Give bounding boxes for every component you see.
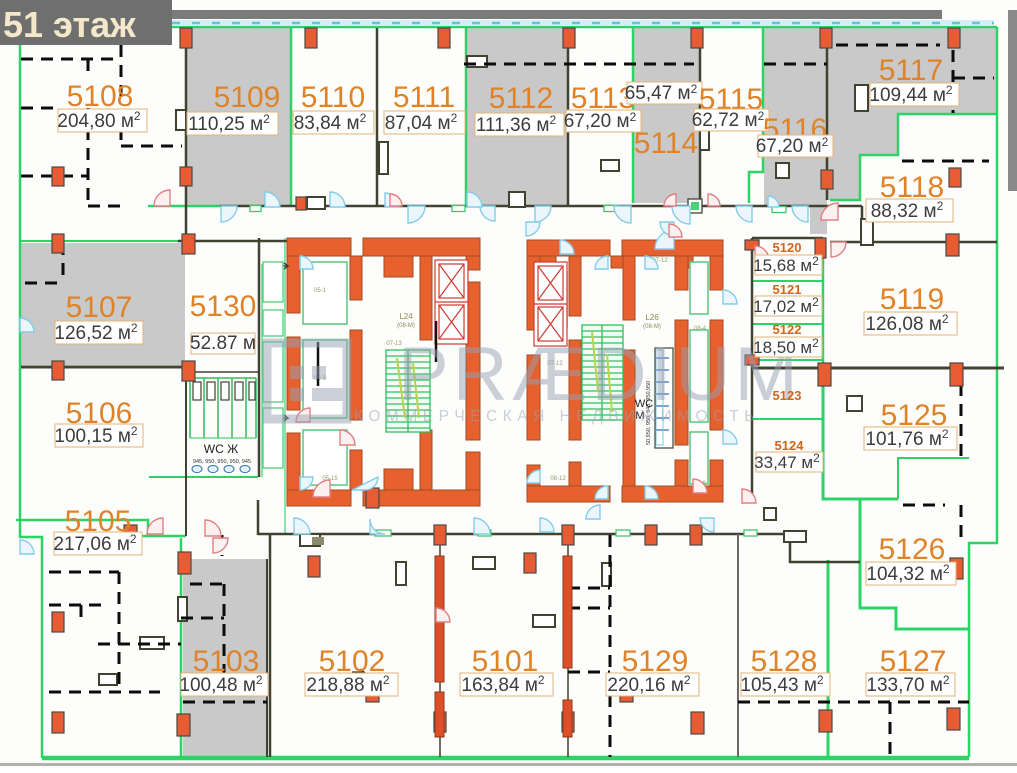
right core internal wall C WC: [675, 256, 688, 290]
wall 5130 right: [258, 238, 261, 477]
vent rect 5102 horizontal: [473, 557, 495, 569]
wall 5123 bottom green: [752, 418, 823, 420]
rooms 5120-5122 dividers green: [752, 280, 823, 282]
svg-text:(08-М): (08-М): [397, 323, 415, 329]
wall 5119 left green: [822, 238, 825, 368]
wall 5118 left vertical: [861, 206, 864, 242]
corridor wall green part left: [148, 205, 220, 208]
rooms 5116-5117 gray fill: [764, 28, 997, 206]
vent rect 5101: [533, 615, 555, 627]
svg-text:126,52 м2: 126,52 м2: [54, 321, 137, 344]
outer boundary right edge: [969, 27, 997, 757]
left core ducts green outline: [303, 262, 708, 485]
room 5112 gray fill: [466, 28, 568, 206]
vent rect 5102 vertical: [396, 562, 406, 585]
vent rect 5112 top: [467, 56, 487, 67]
dashed line 5118 top: [902, 160, 989, 163]
svg-text:5107: 5107: [66, 291, 133, 324]
room 5107 top green edge: [20, 240, 188, 242]
bottom gray scan line: [0, 763, 1017, 766]
room 5106/5105 boundary green: [16, 520, 148, 537]
dashed partition 5108 vertical a: [120, 45, 123, 100]
svg-text:5114: 5114: [634, 127, 699, 160]
room 5107 gray fill: [21, 243, 185, 365]
elevator shaft left block: [435, 260, 468, 344]
dashed partition 5108 left low: [21, 175, 88, 178]
room 5114 label: [627, 82, 702, 104]
header 51 floor: [0, 0, 172, 45]
dashed corner 5126: [903, 505, 961, 542]
dashed partitions 5105: [49, 571, 119, 574]
vent rect 5103 left: [178, 597, 187, 621]
blue door arcs top corridor: [221, 192, 808, 249]
teal tick line above top edge: [172, 20, 994, 26]
svg-text:5121: 5121: [773, 282, 802, 297]
markers bottom corridor wall: [124, 525, 137, 545]
right core top column stems: [534, 256, 556, 268]
dashed line 5128/5127 bottom: [738, 701, 969, 704]
svg-text:5122: 5122: [773, 322, 802, 337]
left core internal wall B: [420, 256, 432, 340]
right core right wall: [710, 256, 723, 290]
dashed partition 5108 low horizontal: [121, 145, 182, 148]
boundary 5117/5118 step: [830, 114, 997, 200]
corridor 5126 step: [790, 534, 860, 562]
room 5124 boundary green thick: [823, 371, 898, 499]
svg-text:88,32 м2: 88,32 м2: [871, 199, 944, 222]
svg-text:87,04 м2: 87,04 м2: [385, 111, 458, 134]
vent rect corridor near 5130: [307, 197, 325, 209]
svg-text:204,80 м2: 204,80 м2: [57, 109, 140, 132]
left core bottom column stem: [384, 469, 413, 490]
left core bottom wall: [287, 490, 351, 506]
wall 5130/WC bottom: [186, 371, 259, 373]
outer boundary top edge: [20, 27, 997, 45]
wall 5107/5106 dark part: [21, 366, 190, 369]
svg-text:65,47 м2: 65,47 м2: [625, 82, 698, 104]
wall 5130 top: [178, 240, 288, 243]
wall 5129/5128: [737, 534, 739, 757]
outer boundary bottom edge: [42, 756, 969, 761]
outer boundary left edge: [20, 45, 42, 758]
dashed partitions 5103: [223, 584, 226, 702]
corridor bottom wall left connector: [257, 500, 260, 535]
svg-text:126,08 м2: 126,08 м2: [865, 312, 948, 335]
red door arcs: [147, 190, 846, 622]
wall 5106 right / WC left: [185, 372, 187, 536]
dashed vertical 5117: [952, 30, 955, 113]
wall 5110/5111: [376, 28, 379, 206]
svg-text:5112: 5112: [489, 82, 554, 115]
vent rect 5128: [784, 531, 806, 542]
room 5125 right notch green: [898, 458, 969, 499]
corridor green verticals near core left: [261, 264, 263, 477]
wall 5113/5114: [632, 28, 635, 203]
svg-text:5126: 5126: [879, 533, 946, 566]
svg-text:5109: 5109: [214, 81, 281, 114]
left core block top wall: [287, 238, 351, 256]
room 5103 gray fill: [183, 559, 267, 757]
svg-text:100,48 м2: 100,48 м2: [179, 673, 262, 696]
right core bottom wall: [527, 486, 610, 502]
markers 5103 walls: [178, 552, 191, 574]
svg-text:105,43 м2: 105,43 м2: [740, 673, 823, 696]
entry arrows core left wall: [276, 263, 288, 269]
service shafts right of 5130: [263, 262, 283, 468]
WC Ж sinks row: [192, 466, 250, 473]
black utility line left lobby: [435, 321, 438, 362]
svg-text:52.87 м: 52.87 м: [190, 333, 256, 354]
wall 5109/5110: [290, 28, 293, 206]
wall corridor left vertical: [185, 206, 188, 242]
svg-text:5111: 5111: [393, 81, 455, 114]
vent dark box bottom wall: [300, 534, 320, 546]
stair left block: [386, 350, 430, 432]
left core top column stem: [384, 256, 413, 277]
dashed branch 5117 right: [953, 77, 994, 80]
green vertical right of 5130: [284, 238, 286, 535]
blue arcs bottom corridor: [20, 240, 737, 554]
svg-text:5119: 5119: [880, 283, 945, 316]
dashed vertical 5127: [889, 702, 892, 757]
right core block top wall: [527, 240, 610, 256]
svg-text:217,06 м2: 217,06 м2: [53, 532, 136, 555]
door thresholds green: [250, 199, 786, 213]
room 5114 gray fill: [633, 28, 700, 203]
dashed partition 5108 vertical c: [120, 128, 123, 146]
wall 5108/5109: [185, 28, 188, 206]
markers 5120 block: [745, 240, 759, 250]
vent rect 5125: [847, 396, 862, 411]
wall small rooms left 5120-5124: [751, 238, 754, 500]
column markers top wall: [180, 28, 192, 48]
svg-text:945, 950, 950, 950, 945: 945, 950, 950, 950, 945: [193, 459, 251, 465]
wall 5115/5116: [749, 28, 763, 203]
svg-text:111,36 м2: 111,36 м2: [476, 113, 557, 136]
svg-text:5117: 5117: [879, 54, 944, 87]
svg-text:5124: 5124: [775, 438, 805, 453]
svg-text:5130: 5130: [190, 290, 257, 323]
svg-text:109,44 м2: 109,44 м2: [869, 83, 952, 106]
wall 5128/5127 green: [827, 560, 830, 757]
wall 5102/5101 thin: [439, 534, 441, 757]
svg-text:133,70 м2: 133,70 м2: [866, 673, 949, 696]
WC Ж stalls left zone: [190, 378, 256, 438]
vent rect 5105 dashed line: [140, 637, 164, 649]
svg-text:08-12: 08-12: [550, 476, 566, 482]
right gray scan bar: [1008, 10, 1017, 191]
wall 5119/5125: [752, 367, 1004, 370]
svg-text:33,47 м2: 33,47 м2: [754, 451, 820, 472]
column markers row2: [52, 167, 64, 186]
markers 5126: [950, 558, 963, 579]
dashed stubs 5129: [568, 588, 610, 672]
dashed partition 5107 corner: [25, 243, 63, 283]
dashed partition 5108 vertical b: [87, 108, 90, 206]
dashed partition 5108 short horizontal: [21, 107, 56, 110]
right core left wall: [527, 256, 540, 330]
markers on 5118/5119 walls: [946, 234, 959, 256]
svg-text:83,84 м2: 83,84 м2: [294, 111, 367, 134]
red-orange partition 5102/5101: [435, 556, 444, 682]
vent rect 5118 top right: [855, 85, 868, 111]
dashed vertical 5106/5105: [221, 535, 224, 556]
svg-text:PRÆDIUM: PRÆDIUM: [398, 332, 802, 417]
wall 5101/5129 thin: [567, 534, 569, 757]
room 5109 gray fill: [187, 28, 291, 207]
svg-text:WC Ж: WC Ж: [204, 442, 238, 456]
dashed line top band 5116-5117: [764, 45, 940, 64]
dashed partition 5108 top horizontal: [21, 58, 121, 61]
svg-text:5108: 5108: [67, 80, 134, 113]
left core internal wall A: [350, 256, 362, 300]
marker 5120 top right: [815, 238, 826, 258]
svg-text:51 этаж: 51 этаж: [3, 4, 136, 45]
svg-text:17,02 м2: 17,02 м2: [753, 295, 819, 316]
svg-text:67,20 м2: 67,20 м2: [564, 110, 637, 132]
svg-text:218,88 м2: 218,88 м2: [306, 673, 389, 696]
svg-text:110,25 м2: 110,25 м2: [188, 112, 270, 135]
elevator shaft right block: [534, 262, 567, 346]
svg-text:18,50 м2: 18,50 м2: [753, 336, 819, 357]
vent rect 5129 vertical: [602, 563, 611, 586]
dashed vertical 5126 right: [960, 384, 963, 458]
wall 5120 top: [752, 237, 823, 240]
red-orange partition 5101/5129: [563, 556, 572, 668]
vent rect 5115 left: [700, 127, 709, 150]
svg-text:100,15 м2: 100,15 м2: [54, 424, 137, 447]
svg-text:163,84 м2: 163,84 м2: [461, 673, 544, 696]
wall 5102 left: [269, 534, 272, 757]
door thresholds bottom corridor: [375, 530, 757, 536]
svg-text:15,68 м2: 15,68 м2: [753, 254, 819, 275]
svg-text:05-1: 05-1: [314, 288, 327, 294]
svg-text:5123: 5123: [773, 388, 802, 403]
svg-text:L26: L26: [645, 313, 659, 322]
corridor bottom wall: [258, 533, 790, 536]
markers bottom row: [52, 712, 64, 733]
dashed line top band 5112-5114: [464, 63, 694, 66]
svg-text:КОММЕРЧЕСКАЯ НЕДВИЖИМОСТЬ: КОММЕРЧЕСКАЯ НЕДВИЖИМОСТЬ: [354, 408, 760, 425]
left core right wall: [466, 256, 480, 270]
markers misc middle: [366, 488, 379, 508]
svg-text:67,20 м2: 67,20 м2: [756, 135, 829, 157]
vent rect 5113: [601, 160, 619, 171]
svg-text:101,76 м2: 101,76 м2: [865, 427, 948, 450]
stair right block: [582, 325, 623, 420]
svg-text:5110: 5110: [301, 81, 366, 114]
svg-text:5120: 5120: [773, 240, 802, 255]
top gray scan bar: [170, 10, 942, 19]
WC M stalls right block: [655, 348, 673, 448]
left core left wall: [287, 256, 300, 313]
right core internal wall A: [569, 256, 581, 316]
watermark logo square: [267, 343, 348, 419]
WC zone bottom green: [149, 476, 258, 478]
dashed line 5108 bottom: [88, 205, 121, 208]
vent rect 5116: [776, 163, 789, 178]
vent rect 5109 left wall: [176, 110, 186, 130]
right core internal wall B: [623, 256, 635, 320]
svg-text:(08-М): (08-М): [643, 324, 661, 330]
wall 5111/5112: [465, 28, 468, 206]
column markers row3 wall 5107: [52, 234, 64, 253]
dashed boundary 5129 left: [609, 535, 612, 757]
wall 5116/5117zone: [826, 28, 829, 200]
room 5105 entry green: [128, 535, 186, 538]
wall 5112/5113: [567, 28, 570, 206]
vent rect 5126: [764, 508, 776, 520]
wall 5118/5119: [830, 241, 997, 244]
vent rect 5111 left wall: [379, 142, 388, 174]
wall 5103 right: [266, 559, 268, 757]
vent rect 5105: [99, 674, 117, 685]
gray patch above corridor near 5118: [810, 200, 827, 234]
svg-text:62,72 м2: 62,72 м2: [692, 109, 765, 131]
corridor top wall: [220, 205, 862, 208]
vent rect 5118 left: [861, 219, 873, 245]
wall 5105/5103 green: [180, 538, 183, 757]
dashed partition 5108 stub: [87, 59, 90, 77]
vent rect corridor near 5112: [509, 192, 525, 207]
wall 5114/5115: [699, 28, 702, 203]
svg-text:104,32 м2: 104,32 м2: [866, 562, 949, 585]
svg-text:220,16 м2: 220,16 м2: [607, 673, 690, 696]
room 5125 lower boundary green: [860, 499, 969, 629]
svg-text:L24: L24: [399, 312, 413, 321]
